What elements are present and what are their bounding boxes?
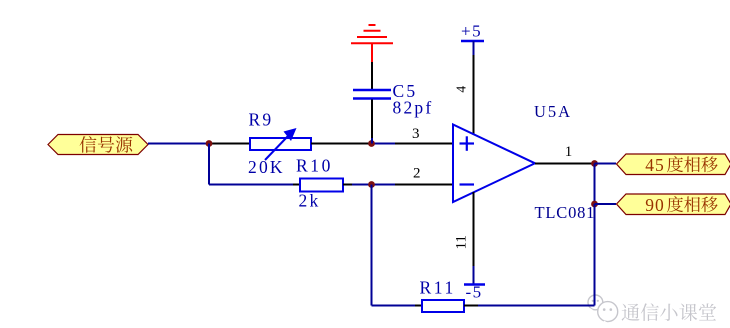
earth ground (red) xyxy=(351,25,393,62)
port 45度相移 xyxy=(617,154,730,175)
node D junction dot xyxy=(591,160,598,167)
op-amp U5A xyxy=(453,125,535,203)
port 90度相移 xyxy=(617,194,730,215)
wire: R9 to node B xyxy=(311,143,369,145)
wire: op-amp pin 11 down xyxy=(473,192,475,266)
watermark text 通信小课堂 xyxy=(622,304,640,321)
svg-text:R10: R10 xyxy=(296,156,333,176)
svg-text:3: 3 xyxy=(412,126,420,142)
wire: bottom left segment to R11 xyxy=(372,305,416,307)
wire: R10 to node C xyxy=(343,184,352,186)
node E junction dot xyxy=(591,201,598,208)
svg-text:20K: 20K xyxy=(248,157,285,177)
wire: R11 to bottom right corner xyxy=(464,305,478,307)
svg-text:90: 90 xyxy=(645,195,665,215)
node C junction dot xyxy=(368,181,375,188)
wire: signal source to node A xyxy=(148,143,209,145)
wire: node E to port 90 xyxy=(595,203,617,205)
svg-text:TLC081: TLC081 xyxy=(535,203,596,222)
wire: node C down to bottom xyxy=(371,185,373,306)
capacitor C5 xyxy=(353,90,391,99)
wire: corner to R10 xyxy=(209,184,293,186)
svg-text:R11: R11 xyxy=(420,278,456,298)
resistor R9 (potentiometer) xyxy=(250,128,311,160)
svg-text:4: 4 xyxy=(453,86,468,93)
svg-text:45: 45 xyxy=(645,155,665,175)
wire: node C to op-amp pin 2 xyxy=(395,184,454,186)
wire: +5 to op-amp pin 4 xyxy=(473,55,475,135)
svg-text:1: 1 xyxy=(565,144,573,160)
svg-text:2k: 2k xyxy=(299,191,321,211)
wire: node A to R9 (pin) xyxy=(209,143,250,145)
node A junction dot xyxy=(206,140,213,147)
resistor R10 xyxy=(300,179,343,192)
wire: C5 to node B xyxy=(371,100,373,139)
power +5 xyxy=(461,22,484,55)
svg-text:R9: R9 xyxy=(249,110,274,130)
svg-text:U5A: U5A xyxy=(534,102,572,121)
svg-text:11: 11 xyxy=(453,235,469,249)
node B junction dot xyxy=(368,140,375,147)
wire: node E down to bottom feedback xyxy=(594,204,596,306)
wire: node D to port 45 xyxy=(595,163,617,165)
wire: node D down to node E xyxy=(594,164,596,205)
svg-text:82pf: 82pf xyxy=(393,97,434,117)
port 信号源 xyxy=(48,135,148,155)
resistor R11 xyxy=(422,300,464,312)
svg-text:+5: +5 xyxy=(461,22,482,41)
svg-text:2: 2 xyxy=(413,165,421,181)
wire: node A down to inverting line xyxy=(208,144,210,185)
watermark logo xyxy=(588,295,618,326)
svg-text:-5: -5 xyxy=(466,283,483,302)
wire: ground to C5 xyxy=(371,62,373,89)
power -5 xyxy=(464,266,485,302)
wire: node B to op-amp pin 3 xyxy=(369,143,395,145)
wire: op-amp output pin 1 xyxy=(535,163,592,165)
